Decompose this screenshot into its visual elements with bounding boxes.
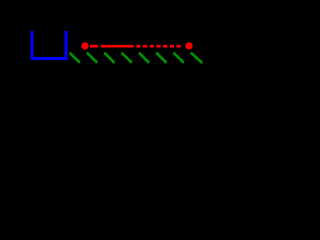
red level line long dash [101, 45, 134, 48]
red level line short dash 7 [176, 45, 180, 48]
green hatch mark 1 [70, 53, 79, 62]
red level line short dash 6 [170, 45, 174, 48]
red level line short dash 3 [150, 45, 154, 48]
green hatch mark 5 [140, 53, 149, 62]
red level line dash 1 [90, 45, 98, 48]
green hatch mark 8 [192, 53, 202, 62]
red endpoint marker left [81, 42, 88, 49]
green hatch mark 3 [105, 53, 114, 62]
green hatch mark 6 [157, 53, 166, 62]
red level line short dash 2 [143, 45, 147, 48]
green hatch mark 7 [174, 53, 183, 62]
red level line short dash 5 [163, 45, 167, 48]
blue container/well U-shape [32, 31, 66, 59]
green hatch mark 4 [122, 53, 131, 62]
red level line short dash 1 [136, 45, 140, 48]
red endpoint marker right [185, 42, 192, 49]
green hatch mark 2 [88, 53, 97, 62]
red level line short dash 4 [156, 45, 160, 48]
